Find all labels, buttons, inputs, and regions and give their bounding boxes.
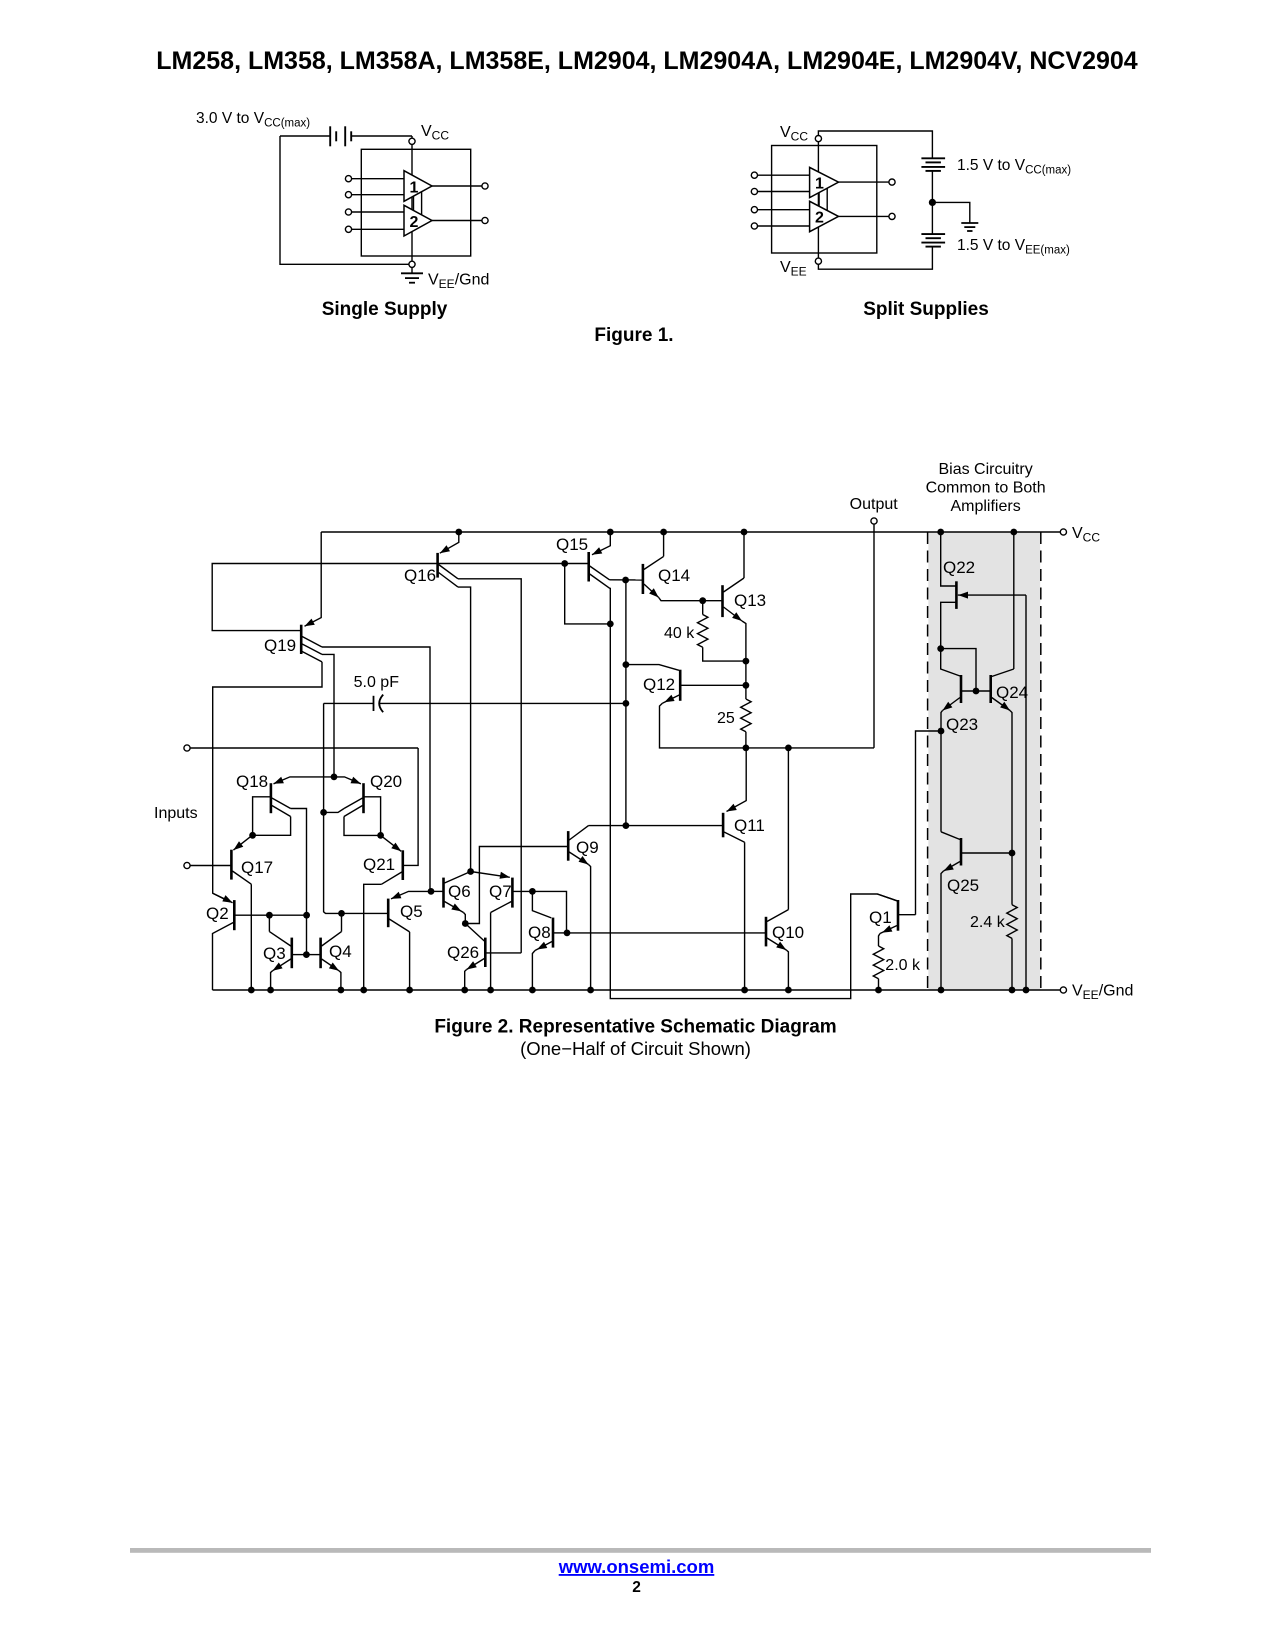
label Q12	[643, 675, 675, 694]
svg-text:Q24: Q24	[996, 683, 1028, 702]
footer link	[558, 1556, 715, 1577]
VEE rail node x490	[487, 987, 494, 994]
capacitor 5.0 pF	[324, 695, 626, 713]
op-amp 2 (single)	[404, 205, 432, 236]
wire Q20 collector2	[344, 817, 381, 836]
label Q19	[264, 636, 296, 655]
label 2.4 k	[970, 914, 1006, 931]
node Q7 base node	[529, 888, 536, 895]
node Q4 collector	[338, 910, 345, 917]
node Q12 branch	[622, 577, 629, 584]
wire Q6 emitter	[464, 913, 466, 924]
caption Figure 1.	[594, 325, 673, 346]
VEE rail node x878	[875, 987, 882, 994]
svg-text:1: 1	[815, 175, 824, 192]
label Q16	[404, 566, 436, 585]
transistor Q10	[766, 910, 788, 950]
transistor Q5	[388, 891, 431, 932]
op-amp 1 (split)	[810, 167, 839, 197]
wire amp link B (split)	[826, 188, 828, 211]
output 2 terminal (single)	[482, 217, 488, 223]
svg-text:25: 25	[717, 710, 735, 727]
transistor Q17	[231, 835, 252, 884]
VEE rail node x1012	[1009, 987, 1016, 994]
node Q18 diode	[249, 832, 256, 839]
wire Q19 base	[212, 564, 437, 631]
node comp	[623, 700, 630, 707]
label VCC (split)	[780, 124, 808, 144]
resistor 40k	[698, 601, 746, 661]
wire Q8 emitter	[532, 951, 535, 991]
input terminal 2	[184, 862, 190, 868]
node Q10 collector tap	[785, 745, 792, 752]
svg-text:Q7: Q7	[489, 882, 512, 901]
svg-text:Common to Both: Common to Both	[926, 480, 1046, 497]
svg-text:2: 2	[632, 1579, 641, 1596]
svg-text:VCC: VCC	[421, 123, 449, 143]
svg-text:Q21: Q21	[363, 855, 395, 874]
transistor Q26	[465, 924, 521, 970]
svg-text:Q16: Q16	[404, 566, 436, 585]
wire Q15 base loop	[565, 564, 611, 624]
node comp bottom	[320, 809, 327, 816]
title text	[156, 47, 1138, 75]
VCC rail node x1013	[1010, 529, 1017, 536]
transistor Q14	[643, 556, 664, 597]
input terminal 4 (single)	[345, 226, 404, 232]
label Q25	[947, 876, 979, 895]
label 1.5 V to VEE(max)	[957, 237, 1070, 257]
caption Split Supplies	[863, 299, 989, 320]
wire VCC drop	[411, 136, 413, 138]
VEE rail node x251	[248, 987, 255, 994]
wire Q22 emitter drop	[1025, 595, 1027, 990]
svg-text:(One−Half of Circuit Shown): (One−Half of Circuit Shown)	[520, 1038, 751, 1059]
label Q18	[236, 772, 268, 791]
svg-text:Q11: Q11	[734, 816, 765, 835]
wire input 1	[190, 747, 418, 749]
svg-text:3.0 V to VCC(max): 3.0 V to VCC(max)	[196, 110, 310, 130]
input terminal 2 (single)	[345, 192, 404, 198]
wire Q18 base	[253, 797, 271, 836]
node Q3-Q4 base	[303, 951, 310, 958]
wire Q20 base	[364, 797, 381, 836]
transistor Q11	[589, 748, 747, 842]
svg-text:VEE/Gnd: VEE/Gnd	[1072, 983, 1133, 1003]
output 1 wire (single)	[432, 185, 482, 187]
terminal VCC (single)	[409, 138, 415, 144]
input terminal 4 (split)	[751, 223, 809, 229]
wire Q14 emitter	[659, 598, 723, 601]
svg-text:Q15: Q15	[556, 535, 588, 554]
resistor 25	[741, 699, 751, 748]
output terminal	[871, 518, 877, 524]
VEE rail node x464	[461, 987, 468, 994]
output 1 wire (split)	[839, 181, 889, 183]
VCC rail node x610	[607, 529, 614, 536]
bias shaded region	[928, 532, 1040, 990]
svg-text:40 k: 40 k	[664, 625, 695, 642]
svg-text:Figure 1.: Figure 1.	[594, 325, 673, 346]
caption one-half	[520, 1038, 751, 1059]
wire Q13 collector	[743, 532, 745, 578]
label Q24	[996, 683, 1028, 702]
VEE rail	[213, 989, 1061, 991]
wire Q16 collector2	[458, 587, 471, 871]
input terminal 3 (split)	[751, 207, 809, 213]
wire cap to comp node	[323, 703, 325, 812]
VEE rail node x532	[529, 987, 536, 994]
ground (split)	[961, 223, 978, 231]
svg-text:5.0 pF: 5.0 pF	[354, 674, 400, 691]
wire node to battery2	[931, 202, 933, 234]
label Q4	[329, 942, 352, 961]
wire Q21 base	[403, 748, 418, 865]
svg-text:Q18: Q18	[236, 772, 268, 791]
svg-text:Inputs: Inputs	[154, 805, 198, 822]
wire Q9 emitter	[589, 865, 591, 991]
wire Q18 collector1	[291, 809, 307, 955]
svg-text:Q4: Q4	[329, 942, 352, 961]
transistor Q20	[334, 777, 364, 817]
wire VCC to amps	[411, 144, 413, 261]
wire Q19 collector2	[322, 654, 334, 777]
output 2 wire (split)	[839, 215, 889, 217]
bias dashed border right	[1040, 532, 1042, 990]
wire battery2 return	[818, 247, 932, 270]
label 25	[717, 710, 735, 727]
wire Q15 collector2 long	[610, 588, 897, 998]
wire Q4 collector	[341, 913, 343, 931]
wire Q20 collector1	[324, 809, 344, 813]
svg-text:Figure 2. Representative Schem: Figure 2. Representative Schematic Diagr…	[434, 1017, 836, 1038]
ground (single)	[401, 267, 423, 282]
transistor Q9	[568, 826, 588, 865]
wire Q16 collector1	[458, 579, 521, 953]
terminal VEE (single)	[409, 261, 415, 267]
svg-text:Q19: Q19	[264, 636, 296, 655]
transistor Q7	[471, 872, 533, 913]
node Q18-Q20 emitters	[331, 774, 338, 781]
svg-text:Q9: Q9	[576, 838, 599, 857]
label Q10	[772, 923, 804, 942]
input terminal 2 (split)	[751, 188, 809, 194]
label Q1	[869, 908, 892, 927]
transistor Q16	[438, 532, 459, 587]
label Q22	[943, 558, 975, 577]
wire VCC to battery1	[818, 131, 932, 158]
VEE rail node x590	[587, 987, 594, 994]
wire Q24 emitter	[1010, 711, 1012, 854]
node 25 bottom	[743, 745, 750, 752]
node Q13-40k	[743, 658, 750, 665]
wire Q19 collector3	[213, 662, 322, 902]
label Q6	[448, 882, 471, 901]
label Q13	[734, 591, 766, 610]
svg-text:VCC: VCC	[780, 124, 808, 144]
terminal VCC rail	[1060, 529, 1066, 535]
node Q6-Q7 emitters	[467, 868, 474, 875]
node Q3 collector	[266, 912, 273, 919]
svg-text:VEE/Gnd: VEE/Gnd	[428, 272, 489, 292]
wire comp column	[625, 580, 627, 826]
transistor Q25	[941, 832, 1012, 871]
node Q8-Q10 base	[564, 930, 571, 937]
VCC rail node x458	[455, 529, 462, 536]
wire Q10 collector	[787, 748, 789, 910]
node Q20 diode	[377, 832, 384, 839]
svg-text:Amplifiers: Amplifiers	[950, 498, 1020, 515]
svg-text:Q2: Q2	[206, 904, 229, 923]
svg-text:Single Supply: Single Supply	[322, 299, 448, 320]
wire battery return	[280, 136, 409, 264]
transistor Q8	[532, 891, 567, 950]
svg-text:1: 1	[410, 179, 419, 196]
label Q11	[734, 816, 765, 835]
wire Q12 emitter	[660, 703, 875, 748]
wire Q21 collector	[364, 884, 382, 990]
op-amp 2 (split)	[810, 201, 839, 231]
VEE rail node x409	[406, 987, 413, 994]
input terminal 1 (single)	[345, 176, 404, 182]
transistor Q13	[723, 578, 745, 621]
label 40 k	[664, 625, 695, 642]
label VEE (split)	[780, 259, 807, 279]
wire Q15 collector1	[610, 579, 643, 581]
VCC rail	[321, 531, 1060, 533]
wire Q3 base	[292, 954, 307, 956]
wire node to ground	[932, 202, 969, 223]
svg-text:Q14: Q14	[658, 566, 690, 585]
wire amp1-amp2 link B	[421, 192, 423, 215]
wire amp1-amp2 link A	[413, 196, 415, 210]
wire Q18 collector2	[253, 817, 291, 836]
node Q15 collector2 tap	[607, 621, 614, 628]
wire Q4 base	[306, 954, 320, 956]
wire Q3 collector	[268, 915, 270, 931]
transistor Q12	[626, 665, 746, 704]
label Q21	[363, 855, 395, 874]
wire Q24 collector	[1013, 532, 1015, 669]
svg-text:Q23: Q23	[946, 715, 978, 734]
label Q20	[370, 772, 402, 791]
svg-text:Q22: Q22	[943, 558, 975, 577]
VCC rail node x663	[660, 529, 667, 536]
node Q6-Q26-Q9	[462, 920, 469, 927]
wire VCC to amps (split)	[817, 142, 819, 258]
label 2.0 k	[885, 957, 921, 974]
wire Q1 emitter	[879, 934, 881, 947]
svg-text:Output: Output	[850, 496, 899, 513]
label Q2	[206, 904, 229, 923]
wire Q1 base	[916, 731, 941, 915]
transistor Q6	[431, 872, 471, 913]
svg-text:Q3: Q3	[263, 944, 286, 963]
transistor Q4	[321, 932, 342, 971]
wire Q10 emitter	[786, 950, 788, 990]
label 5.0 pF	[354, 674, 400, 691]
battery B2 (1.5V top)	[921, 158, 945, 171]
wire Q7 collector	[490, 913, 492, 991]
node Q11 base	[623, 822, 630, 829]
wire Q2 collector	[213, 923, 234, 991]
transistor Q1	[877, 894, 915, 934]
wire Q26 emitter	[465, 970, 467, 991]
wire Q23 emitter	[941, 711, 943, 832]
label VEE/Gnd (single)	[428, 272, 489, 292]
label Q14	[658, 566, 690, 585]
wire Q7 base to Q8/Q10	[532, 891, 566, 933]
bias dashed border left	[927, 532, 929, 990]
wire Q23 base link	[941, 649, 976, 691]
label VCC (single)	[421, 123, 449, 143]
transistor Q18	[271, 777, 334, 817]
wire Q13 emitter	[742, 621, 746, 699]
svg-text:Q20: Q20	[370, 772, 402, 791]
VEE rail node x363	[360, 987, 367, 994]
footer page number	[632, 1579, 641, 1596]
input terminal 1	[184, 745, 190, 751]
label Q8	[528, 923, 551, 942]
wire Q25 emitter	[941, 871, 944, 990]
node 40k top	[699, 597, 706, 604]
label Q5	[400, 902, 423, 921]
wire Q11 collector	[744, 842, 746, 990]
node Q15 base	[561, 560, 568, 567]
label Q15	[556, 535, 588, 554]
op-amp 1 (single)	[404, 171, 432, 202]
output 2 wire (single)	[432, 220, 482, 222]
transistor Q24	[991, 669, 1014, 711]
svg-text:Q26: Q26	[447, 943, 479, 962]
svg-text:2: 2	[410, 214, 419, 231]
svg-text:Q10: Q10	[772, 923, 804, 942]
VCC rail node x940	[937, 529, 944, 536]
transistor Q19	[301, 532, 322, 662]
svg-text:Q5: Q5	[400, 902, 423, 921]
input terminal 3 (single)	[345, 209, 404, 215]
output 2 terminal (split)	[889, 213, 895, 219]
VCC rail node x744	[741, 529, 748, 536]
svg-text:Q13: Q13	[734, 591, 766, 610]
wire input 2	[190, 865, 231, 867]
label Q7	[489, 882, 512, 901]
wire Q4 emitter	[339, 971, 341, 990]
label Q17	[241, 858, 273, 877]
svg-text:VCC: VCC	[1072, 525, 1100, 545]
output 1 terminal (split)	[889, 179, 895, 185]
node battery midpoint	[929, 199, 936, 206]
label 3.0 V to VCC(max)	[196, 110, 310, 130]
terminal VCC (split)	[815, 136, 821, 142]
terminal VEE rail	[1060, 987, 1066, 993]
VEE rail node x270	[267, 987, 274, 994]
svg-text:Q17: Q17	[241, 858, 273, 877]
IC box (single)	[361, 149, 470, 256]
caption Figure 2	[434, 1017, 836, 1038]
output 1 terminal (single)	[482, 183, 488, 189]
VEE rail node x1026	[1023, 987, 1030, 994]
wire amp link A (split)	[818, 193, 820, 207]
resistor 2.4k	[1007, 853, 1017, 990]
node base column A	[303, 912, 310, 919]
label Q26	[447, 943, 479, 962]
node Q25 base-2.4k	[1009, 850, 1016, 857]
transistor Q23	[941, 649, 991, 711]
VEE rail node x744	[741, 987, 748, 994]
resistor 2.0k	[873, 946, 883, 990]
transistor Q2	[213, 893, 235, 930]
transistor Q15	[589, 532, 611, 588]
wire comp to base B	[324, 812, 389, 913]
wire Q17 collector	[250, 884, 252, 990]
wire Q5 collector	[409, 932, 411, 990]
svg-text:Q12: Q12	[643, 675, 675, 694]
node Q23-Q24 base	[973, 688, 980, 695]
label VEE/Gnd rail	[1072, 983, 1133, 1003]
node Q5-Q6	[428, 888, 435, 895]
svg-text:1.5 V to VEE(max): 1.5 V to VEE(max)	[957, 237, 1070, 257]
label Q23	[946, 715, 978, 734]
svg-text:2.4 k: 2.4 k	[970, 914, 1006, 931]
transistor Q3	[269, 932, 291, 971]
wire Q16 base right	[438, 563, 589, 565]
node Q22 collector	[937, 645, 944, 652]
label Bias Circuitry	[926, 461, 1046, 515]
label 1.5 V to VCC(max)	[957, 157, 1071, 177]
svg-text:www.onsemi.com: www.onsemi.com	[558, 1556, 715, 1577]
svg-text:Bias Circuitry: Bias Circuitry	[938, 461, 1032, 478]
IC box (split)	[772, 146, 877, 254]
svg-text:1.5 V to VCC(max): 1.5 V to VCC(max)	[957, 157, 1071, 177]
wire Q19 collector1	[322, 647, 430, 891]
label VCC rail	[1072, 525, 1100, 545]
label Q9	[576, 838, 599, 857]
svg-text:Q25: Q25	[947, 876, 979, 895]
VEE rail node x340	[338, 987, 345, 994]
wire output	[873, 524, 875, 748]
input terminal 1 (split)	[751, 172, 809, 178]
label Q3	[263, 944, 286, 963]
label Output	[850, 496, 899, 513]
node Q23-Q1 link	[938, 728, 945, 735]
svg-text:Split Supplies: Split Supplies	[863, 299, 989, 320]
transistor Q21	[381, 835, 403, 884]
wire battery1 to node	[931, 171, 933, 202]
svg-text:Q1: Q1	[869, 908, 892, 927]
battery B1	[280, 126, 412, 146]
transistor Q22	[941, 532, 1026, 649]
battery B3 (1.5V bottom)	[921, 234, 945, 247]
svg-text:LM258, LM358, LM358A, LM358E,: LM258, LM358, LM358A, LM358E, LM2904, LM…	[156, 47, 1138, 75]
svg-text:2: 2	[815, 210, 824, 227]
node Q12 base tap	[743, 682, 750, 689]
label Inputs	[154, 805, 198, 822]
svg-text:VEE: VEE	[780, 259, 807, 279]
VEE rail node x788	[785, 987, 792, 994]
VEE rail node x941	[938, 987, 945, 994]
caption Single Supply	[322, 299, 448, 320]
terminal VEE (split)	[815, 258, 821, 264]
svg-text:2.0 k: 2.0 k	[885, 957, 921, 974]
wire Q10 base	[567, 932, 766, 934]
wire Q14 collector	[663, 532, 665, 556]
node Q12 collector	[623, 661, 630, 668]
wire Q9 base	[465, 847, 568, 924]
wire Q2 base	[234, 914, 306, 916]
wire Q3 emitter	[271, 971, 273, 990]
svg-text:Q8: Q8	[528, 923, 551, 942]
